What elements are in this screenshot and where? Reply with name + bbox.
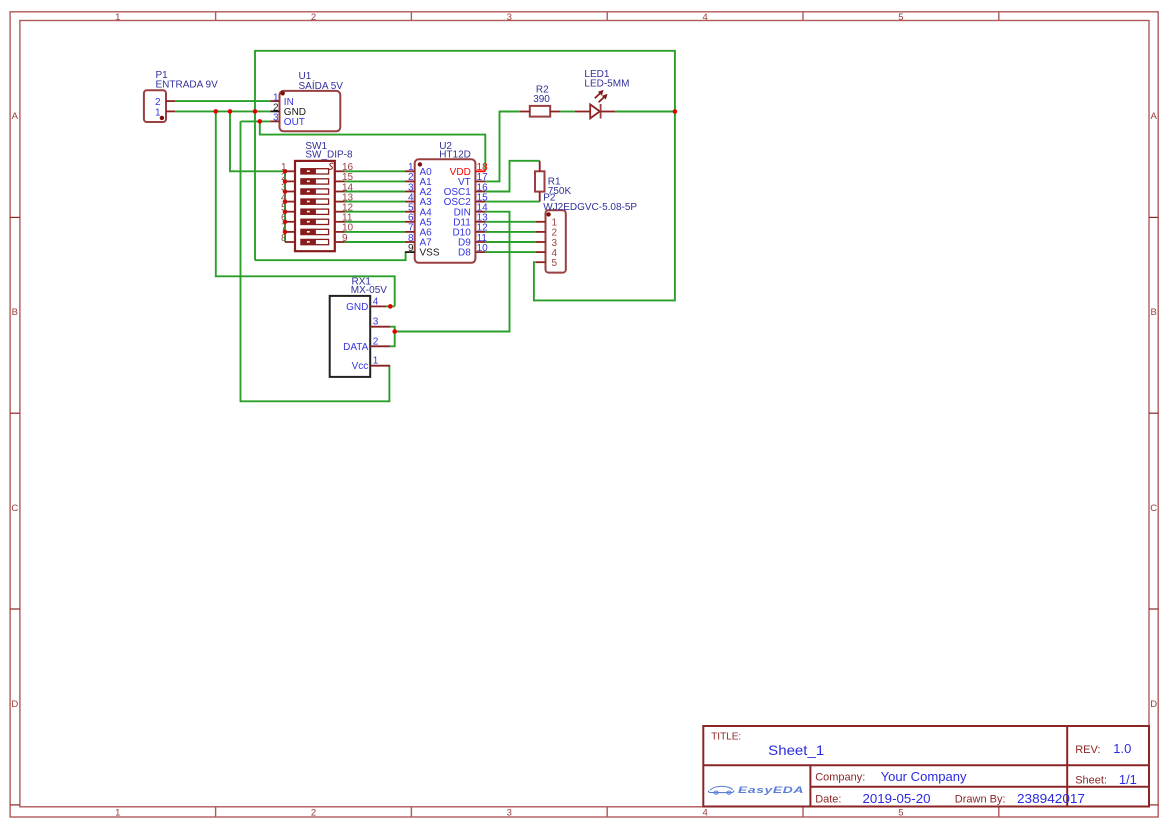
SW1 right pin stub 14 <box>335 191 345 193</box>
svg-text:D: D <box>1150 699 1157 710</box>
receiver module RX1 <box>330 296 371 377</box>
svg-text:SW_DIP-8: SW_DIP-8 <box>305 150 353 161</box>
SW1 left pin stub 5 <box>285 211 295 213</box>
wire U2.DIN to RX1.3 <box>395 212 510 332</box>
SW1 switch element 5 <box>301 209 329 214</box>
SW1 right pin stub 10 <box>335 231 345 233</box>
svg-text:Company:: Company: <box>815 771 865 783</box>
svg-text:3: 3 <box>273 113 279 124</box>
svg-text:Your Company: Your Company <box>881 769 968 784</box>
LED1 cathode bar <box>600 104 602 119</box>
LED1 light arrow 2 <box>599 96 606 103</box>
U1 pin 2 stub <box>270 110 279 112</box>
wire 5V down to RX1.Vcc <box>241 121 390 401</box>
LED1 anode stub <box>575 111 590 113</box>
regulator U1 <box>280 91 341 131</box>
svg-text:3: 3 <box>373 317 379 328</box>
title block divider horizontal date row <box>810 786 1149 788</box>
svg-text:C: C <box>1150 503 1157 514</box>
U2 pin 2 stub <box>405 180 415 182</box>
SW1 right pin stub 12 <box>335 211 345 213</box>
svg-text:TITLE:: TITLE: <box>711 732 741 743</box>
wire U2 D10 to P2.2 <box>485 231 536 233</box>
svg-text:1: 1 <box>155 108 161 119</box>
SW1 symbol squiggle <box>329 163 333 169</box>
wire SW1.16 to U2.1 <box>345 170 405 172</box>
U1 pin1 marker <box>281 91 285 95</box>
R2 left stub <box>520 111 530 113</box>
svg-text:2: 2 <box>311 12 316 23</box>
svg-text:EasyEDA: EasyEDA <box>738 785 804 795</box>
connector P1 <box>144 90 166 122</box>
U2 pin 10 stub <box>475 251 485 253</box>
svg-text:Sheet_1: Sheet_1 <box>768 742 824 758</box>
wire GND down to SW1 row1 <box>230 111 285 171</box>
U2 pin 15 stub <box>475 201 485 203</box>
svg-text:2: 2 <box>373 336 379 347</box>
decoder U2 HT12D <box>415 159 476 262</box>
svg-text:5: 5 <box>898 12 903 23</box>
LED1 light arrow 1 <box>595 92 602 99</box>
svg-text:B: B <box>12 307 18 318</box>
SW1 switch element 7 <box>301 229 329 234</box>
wire SW1.10 to U2.7 <box>345 231 405 233</box>
svg-text:Vcc: Vcc <box>352 361 369 372</box>
svg-text:3: 3 <box>507 12 512 23</box>
SW1 left pin stub 8 <box>285 241 295 243</box>
P1 pin1 marker <box>160 116 164 120</box>
svg-text:10: 10 <box>477 243 489 254</box>
wire RX1.4 link <box>386 305 395 307</box>
wire SW1 left bus <box>284 171 286 242</box>
U2 pin 17 stub <box>475 180 485 182</box>
svg-text:4: 4 <box>702 12 707 23</box>
svg-text:MX-05V: MX-05V <box>351 285 387 296</box>
wire SW1.9 to U2.8 <box>345 241 405 243</box>
U1 pin 3 stub <box>270 120 279 122</box>
title block divider vertical logo cell <box>809 765 811 806</box>
P2 pin 2 stub <box>536 231 546 233</box>
U2 pin 5 stub <box>405 211 415 213</box>
wire U2 D9 to P2.3 <box>485 241 536 243</box>
svg-text:8: 8 <box>281 233 287 244</box>
svg-text:5: 5 <box>552 258 558 269</box>
wire SW1.11 to U2.6 <box>345 221 405 223</box>
svg-text:WJ2EDGVC-5.08-5P: WJ2EDGVC-5.08-5P <box>543 202 637 213</box>
node SW1 left bus junctions <box>283 169 288 174</box>
U2 pin 1 stub <box>405 170 415 172</box>
svg-text:238942017: 238942017 <box>1017 791 1085 806</box>
wire GND down to RX1 area <box>216 111 395 306</box>
wire R2 to LED1 <box>560 111 575 113</box>
title block divider vertical rev column <box>1066 726 1068 807</box>
wire SW1.12 to U2.5 <box>345 211 405 213</box>
RX1 pin 3 stub <box>370 326 390 328</box>
SW1 right pin stub 9 <box>335 241 345 243</box>
svg-text:REV:: REV: <box>1075 744 1100 756</box>
P2 pin1 marker <box>546 212 550 216</box>
svg-text:1: 1 <box>373 356 379 367</box>
SW1 right pin stub 11 <box>335 221 345 223</box>
SW1 left pin stub 1 <box>285 170 295 172</box>
title block divider horizontal main <box>703 764 1149 766</box>
node 5V junction <box>258 119 263 124</box>
P2 pin 4 stub <box>536 251 546 253</box>
SW1 left pin stub 3 <box>285 191 295 193</box>
U2 pin 9 stub <box>405 251 415 253</box>
ruler tick marks bottom <box>215 807 217 817</box>
R2 right stub <box>550 111 560 113</box>
SW1 left pin stub 4 <box>285 201 295 203</box>
svg-text:VSS: VSS <box>420 248 440 259</box>
wire SW1.14 to U2.3 <box>345 191 405 193</box>
wire GND to U2.VSS <box>255 252 406 260</box>
LED1 cathode stub <box>601 111 615 113</box>
svg-text:390: 390 <box>533 94 550 105</box>
SW1 switch element 2 <box>301 179 329 184</box>
wire U1.OUT left <box>241 120 271 122</box>
SW1 switch element 4 <box>301 199 329 204</box>
svg-text:Date:: Date: <box>815 793 841 805</box>
svg-text:LED-5MM: LED-5MM <box>584 78 629 89</box>
wire P1.1 to U1.GND (GND bus) <box>175 110 270 112</box>
U2 pin 7 stub <box>405 231 415 233</box>
wire U2 D8 to P2.4 <box>485 251 536 253</box>
svg-text:Drawn By:: Drawn By: <box>955 793 1006 805</box>
svg-text:D: D <box>11 699 18 710</box>
svg-text:9: 9 <box>408 243 414 254</box>
svg-text:4: 4 <box>373 296 379 307</box>
svg-text:A: A <box>1151 111 1158 122</box>
svg-text:GND: GND <box>346 302 368 313</box>
ruler tick marks top <box>215 12 217 21</box>
U2 pin 13 stub <box>475 221 485 223</box>
SW1 switch element 6 <box>301 219 329 224</box>
SW1 switch element 3 <box>301 189 329 194</box>
wire RX1.3-RX1.2 join <box>390 327 395 347</box>
svg-text:OUT: OUT <box>284 117 305 128</box>
svg-text:DATA: DATA <box>343 342 369 353</box>
U2 pin 12 stub <box>475 231 485 233</box>
connector P2 <box>546 210 566 272</box>
R1 top stub <box>539 161 541 172</box>
svg-text:1: 1 <box>115 807 120 818</box>
svg-text:B: B <box>1151 307 1157 318</box>
wire 5V to U2.VDD <box>260 121 486 171</box>
P1 pin 1 stub <box>166 110 175 112</box>
wire U2.OSC2 to R1 bottom <box>485 201 539 203</box>
P2 pin 3 stub <box>536 241 546 243</box>
resistor R2 body <box>530 106 550 117</box>
wire SW1.15 to U2.2 <box>345 180 405 182</box>
node RX1 pin4 junction <box>388 304 393 309</box>
svg-text:HT12D: HT12D <box>439 150 471 161</box>
node GND junction 1 <box>214 109 219 114</box>
RX1 pin 2 stub <box>370 345 390 347</box>
U2 pin 11 stub <box>475 241 485 243</box>
node GND junction 3 <box>253 109 258 114</box>
svg-text:1/1: 1/1 <box>1119 772 1137 787</box>
SW1 switch element 1 <box>301 169 329 174</box>
SW1 left pin stub 7 <box>285 231 295 233</box>
svg-text:5: 5 <box>898 807 903 818</box>
U1 pin 1 stub <box>270 100 279 102</box>
U2 pin 14 stub <box>475 211 485 213</box>
SW1 right pin stub 15 <box>335 180 345 182</box>
resistor R1 body <box>535 171 545 191</box>
node GND junction 2 <box>228 109 233 114</box>
svg-text:1: 1 <box>115 12 120 23</box>
svg-text:1.0: 1.0 <box>1113 741 1131 756</box>
wire LED1 to loop <box>615 111 675 113</box>
P2 pin 1 stub <box>536 221 546 223</box>
EasyEDA logo car icon <box>708 786 733 794</box>
U2 pin 16 stub <box>475 191 485 193</box>
U2 pin 3 stub <box>405 191 415 193</box>
svg-text:2: 2 <box>311 807 316 818</box>
svg-text:2019-05-20: 2019-05-20 <box>863 791 931 806</box>
SW1 left pin stub 2 <box>285 180 295 182</box>
ruler tick marks left <box>10 216 20 218</box>
U2 pin1 marker <box>418 162 422 166</box>
SW1 right pin stub 16 <box>335 170 345 172</box>
RX1 pin 4 stub <box>370 305 386 307</box>
title block outer <box>703 726 1149 807</box>
wire SW1.13 to U2.4 <box>345 201 405 203</box>
node RX1 pin3 junction <box>392 329 397 334</box>
P2 pin 5 stub <box>536 261 546 263</box>
R1 bottom stub <box>539 192 541 202</box>
svg-text:C: C <box>11 503 18 514</box>
SW1 right pin stub 13 <box>335 201 345 203</box>
SW1 switch element 8 <box>301 239 329 244</box>
P1 pin 2 stub <box>166 100 175 102</box>
svg-text:D8: D8 <box>458 248 471 259</box>
U2 pin 6 stub <box>405 221 415 223</box>
wire GND top loop <box>255 51 675 301</box>
wire U2.VT to R2 <box>485 112 520 182</box>
svg-text:4: 4 <box>702 807 707 818</box>
svg-text:A: A <box>12 111 19 122</box>
ruler tick marks right <box>1149 216 1158 218</box>
LED1 triangle <box>590 104 600 118</box>
wire P1.2 to U1.IN <box>175 100 270 102</box>
SW1 left pin stub 6 <box>285 221 295 223</box>
svg-text:2: 2 <box>155 97 161 108</box>
svg-text:9: 9 <box>342 233 348 244</box>
svg-text:3: 3 <box>507 807 512 818</box>
svg-text:Sheet:: Sheet: <box>1075 774 1107 786</box>
svg-text:SAÍDA 5V: SAÍDA 5V <box>299 79 344 92</box>
dip switch SW1 body <box>295 161 335 251</box>
node LED-loop junction <box>673 109 678 114</box>
U2 pin 8 stub <box>405 241 415 243</box>
wire U2 D11 to P2.1 <box>485 221 536 223</box>
svg-text:ENTRADA 9V: ENTRADA 9V <box>156 79 219 90</box>
wire U2.OSC1 to R1 top <box>485 161 539 192</box>
U2 pin 18 stub <box>475 170 485 172</box>
RX1 pin 1 stub <box>370 365 390 367</box>
U2 pin 4 stub <box>405 201 415 203</box>
